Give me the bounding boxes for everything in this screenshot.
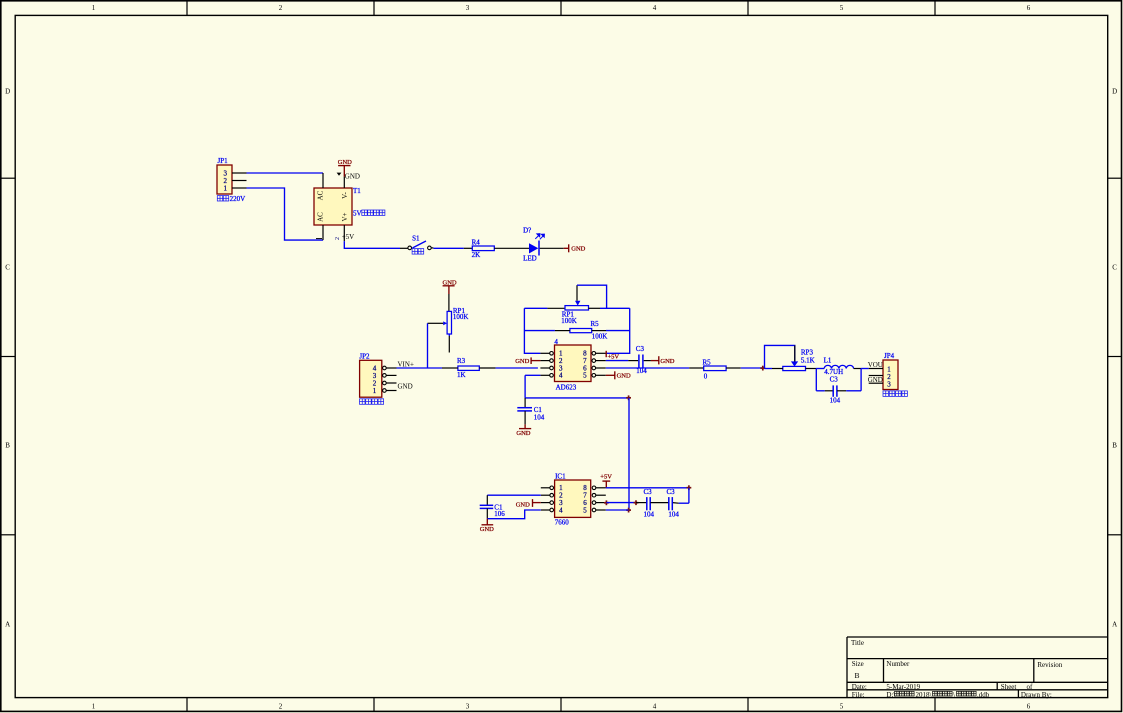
svg-text:6: 6	[1027, 702, 1031, 710]
wire R5 right	[606, 330, 630, 332]
T1 comment 5V power label	[353, 209, 385, 217]
svg-text:GND: GND	[515, 358, 529, 365]
svg-text:D: D	[5, 87, 10, 95]
wire JP1.1 to T1 AC bottom	[247, 188, 324, 240]
wire RP1 wiper to VIN+ net	[427, 323, 429, 368]
wire top to RP1h left	[524, 307, 547, 309]
potentiometer RP1 vertical	[443, 307, 468, 334]
wire R4 to LED	[494, 247, 529, 249]
junction	[634, 500, 639, 505]
svg-text:100K: 100K	[453, 313, 469, 321]
svg-text:Sheet: Sheet	[1001, 683, 1017, 691]
svg-text:220V: 220V	[230, 195, 246, 203]
wire between caps	[650, 502, 668, 504]
RP1 top pin	[448, 294, 450, 311]
svg-text:\: \	[953, 691, 955, 699]
junction	[604, 500, 609, 505]
svg-text:106: 106	[494, 510, 505, 518]
power port +5V at IC1 pin8	[600, 474, 612, 488]
wire R5 left	[524, 330, 555, 332]
svg-text:LED: LED	[523, 255, 537, 263]
svg-text:Drawn By:: Drawn By:	[1021, 691, 1052, 699]
svg-text:C: C	[5, 263, 10, 271]
power port GND below C1 104	[516, 424, 531, 437]
svg-text:2K: 2K	[472, 251, 481, 259]
svg-text:GND: GND	[571, 245, 585, 252]
power port GND at IC1 pin3	[516, 499, 541, 508]
IC U1 7660	[555, 473, 591, 527]
net label GND at T1 V-	[337, 172, 360, 180]
junction	[687, 485, 692, 490]
wire LED to GND	[540, 247, 564, 249]
svg-text:5: 5	[840, 702, 844, 710]
RP1 bottom pin	[448, 334, 450, 336]
svg-text:V-: V-	[341, 191, 349, 198]
wire stub R5 0 left	[689, 367, 704, 369]
svg-text:104: 104	[830, 397, 841, 405]
svg-text:GND: GND	[617, 372, 631, 379]
RP1h wiper pin	[576, 285, 578, 301]
RP3 right pin	[806, 368, 817, 370]
svg-text:A: A	[1112, 620, 1117, 628]
svg-text:104: 104	[644, 510, 655, 518]
svg-text:1K: 1K	[457, 371, 466, 379]
svg-text:T1: T1	[353, 187, 361, 195]
power port GND at AD623 pin5	[606, 371, 631, 379]
wire IC1 pin6 to C3a	[606, 502, 636, 504]
wire down to C3 right	[860, 369, 862, 391]
svg-text:Number: Number	[886, 660, 910, 668]
wire R3 to AD623 pin3	[496, 367, 538, 369]
resistor R5 100K	[570, 320, 607, 341]
svg-text:C3: C3	[667, 488, 676, 496]
svg-text:D: D	[1112, 87, 1117, 95]
svg-text:2: 2	[335, 237, 341, 240]
svg-text:5-Mar-2019: 5-Mar-2019	[886, 683, 920, 691]
svg-text:+5V: +5V	[342, 233, 355, 241]
svg-text:C3: C3	[636, 345, 645, 353]
wire S1 to R4	[433, 247, 463, 249]
svg-text:4: 4	[559, 506, 563, 514]
power port +5V at AD623 pin8	[606, 351, 619, 361]
svg-text:+5V: +5V	[600, 474, 612, 481]
RP1 wiper pin	[428, 322, 444, 324]
wire L1 right	[854, 368, 862, 370]
svg-text:100K: 100K	[592, 333, 608, 341]
svg-text:4: 4	[653, 702, 657, 710]
potentiometer RP1 horizontal	[561, 301, 588, 325]
svg-text:4: 4	[559, 372, 563, 380]
title block	[847, 637, 1108, 698]
JP2 label signal input	[360, 399, 384, 405]
svg-text:100K: 100K	[561, 317, 577, 325]
svg-text:2: 2	[279, 4, 283, 12]
resistor R5 0ohm	[703, 359, 727, 381]
svg-text:2: 2	[279, 702, 283, 710]
resistor R3	[457, 357, 479, 379]
power port GND right of C3	[651, 356, 675, 365]
svg-text:File:: File:	[852, 691, 865, 699]
svg-text:C3: C3	[644, 488, 653, 496]
op-amp U? AD623	[554, 338, 591, 391]
svg-text:5.1K: 5.1K	[801, 357, 815, 365]
JP4 label output signal	[883, 391, 907, 397]
potentiometer RP3	[765, 345, 815, 370]
svg-text:RP3: RP3	[801, 349, 814, 357]
svg-text:V+: V+	[341, 212, 349, 221]
svg-text:A: A	[5, 620, 10, 628]
R5 right pin	[592, 330, 606, 332]
connector JP2	[359, 352, 381, 397]
svg-text:R4: R4	[472, 238, 481, 246]
wire pin4 horizontal	[525, 397, 629, 399]
capacitor C1 104	[517, 398, 544, 425]
svg-text:5: 5	[840, 4, 844, 12]
wire stub R4 left	[464, 247, 473, 249]
wire T1 V+ down	[344, 241, 400, 248]
svg-text:AC: AC	[317, 190, 325, 200]
T1 pin V+ bottom	[343, 225, 345, 241]
inductor L1	[824, 357, 854, 376]
svg-text:5V: 5V	[353, 209, 362, 217]
svg-text:B: B	[855, 671, 860, 680]
svg-text:+5V: +5V	[608, 353, 620, 360]
svg-text:1: 1	[373, 387, 377, 395]
wire JP2.4 to R3	[397, 367, 443, 369]
wire down to C3 left	[815, 369, 817, 391]
junction	[626, 508, 631, 513]
svg-text:1: 1	[224, 184, 228, 192]
svg-text:5: 5	[583, 506, 587, 514]
wire corner down	[688, 488, 690, 503]
svg-text:3: 3	[466, 702, 470, 710]
wire R5 to RP3	[741, 367, 765, 369]
svg-text:Size: Size	[852, 660, 864, 668]
wire left vertical gain loop	[524, 308, 540, 353]
wire AD623 pin6 to R5	[606, 367, 689, 369]
svg-text:R3: R3	[457, 357, 466, 365]
svg-text:B: B	[1112, 441, 1117, 449]
wire pin4 down	[524, 375, 526, 398]
svg-text:4: 4	[653, 4, 657, 12]
svg-text:GND: GND	[516, 430, 530, 437]
capacitor C3 104 LC	[816, 375, 861, 404]
svg-text:JP4: JP4	[884, 352, 895, 360]
wire IC1 pin5 to -5V rail	[606, 509, 629, 511]
T1 pin V- top	[343, 177, 345, 188]
svg-text:AC: AC	[317, 212, 325, 222]
wire JP1.3 to T1 AC top	[247, 172, 324, 174]
wire IC1 pin8 right	[606, 487, 689, 489]
svg-text:.ddb: .ddb	[977, 691, 990, 699]
svg-text:JP2: JP2	[359, 352, 370, 360]
svg-text:AD623: AD623	[556, 383, 577, 391]
svg-text:7660: 7660	[555, 518, 570, 526]
T1 pin AC top	[322, 173, 324, 188]
R3 right pin	[479, 367, 495, 369]
wire -5V vertical to IC1 pin5	[628, 398, 630, 510]
svg-text:GND: GND	[345, 172, 360, 180]
svg-text:GND: GND	[480, 526, 494, 533]
wire AD623 pin4	[525, 374, 540, 376]
svg-text:JP1: JP1	[218, 157, 229, 165]
wire right vertical gain loop	[606, 308, 630, 353]
power port GND right of LED	[564, 244, 586, 252]
wire to JP4 pin1	[861, 368, 869, 370]
svg-text:S1: S1	[412, 235, 420, 243]
svg-text:C: C	[1112, 263, 1117, 271]
connector JP1	[217, 157, 232, 194]
wire wiper loop top	[577, 285, 607, 308]
svg-text:5: 5	[583, 372, 587, 380]
capacitor C3 104 at pin7	[628, 345, 651, 375]
R3 left pin	[442, 367, 458, 369]
S1 label switch	[412, 249, 424, 255]
power port GND at AD623 pin2	[515, 357, 540, 365]
R5 left pin	[555, 330, 570, 332]
svg-text:2018\: 2018\	[916, 691, 932, 699]
svg-text:B: B	[5, 441, 10, 449]
svg-text:6: 6	[1027, 4, 1031, 12]
svg-text:GND: GND	[660, 358, 674, 365]
svg-text:GND: GND	[398, 383, 413, 391]
svg-text:of: of	[1027, 683, 1034, 691]
switch S1	[400, 235, 433, 250]
transformer T1	[314, 187, 361, 225]
wire RP3 to L1	[816, 368, 824, 370]
power port GND above T1	[338, 159, 352, 176]
power port GND above RP1	[443, 280, 457, 295]
RP1h left pin	[547, 307, 565, 309]
svg-text:3: 3	[887, 380, 891, 388]
R5 0 right pin	[726, 367, 741, 369]
JP1 label 220V AC	[217, 195, 245, 203]
svg-text:104: 104	[534, 413, 545, 421]
svg-text:0: 0	[704, 372, 708, 380]
power port GND below C1 106	[480, 519, 494, 534]
RP1h right pin	[589, 307, 601, 309]
wire C1 106 bottom to IC1 pin4	[487, 510, 541, 519]
svg-text:1: 1	[92, 4, 96, 12]
wire AD623 pin7 to C3	[606, 360, 629, 362]
T1 pin AC bottom	[322, 225, 324, 240]
svg-text:C3: C3	[830, 375, 839, 383]
junction	[626, 395, 631, 400]
svg-text:L1: L1	[824, 357, 832, 365]
svg-text:D?: D?	[523, 227, 531, 235]
resistor R4	[472, 238, 495, 259]
svg-text:3: 3	[466, 4, 470, 12]
capacitor C3 104 b	[667, 488, 680, 518]
diode D? LED	[523, 227, 544, 263]
svg-text:D:\: D:\	[886, 691, 895, 699]
connector JP4	[883, 352, 898, 389]
svg-text:R5: R5	[591, 320, 600, 328]
svg-text:Date:: Date:	[852, 683, 867, 691]
capacitor C3 104 a	[636, 488, 655, 518]
RP3 left pin	[772, 368, 783, 370]
junction	[760, 366, 765, 371]
svg-text:Title: Title	[851, 639, 864, 647]
svg-text:1: 1	[92, 702, 96, 710]
wire into C3b right	[673, 502, 679, 505]
svg-text:GND: GND	[516, 501, 530, 508]
capacitor C1 106	[480, 495, 506, 519]
wire RP1h right	[600, 307, 630, 309]
svg-text:104: 104	[668, 510, 679, 518]
wire C1 106 top to IC1 pin2	[487, 494, 541, 496]
svg-text:Revision: Revision	[1037, 661, 1062, 669]
